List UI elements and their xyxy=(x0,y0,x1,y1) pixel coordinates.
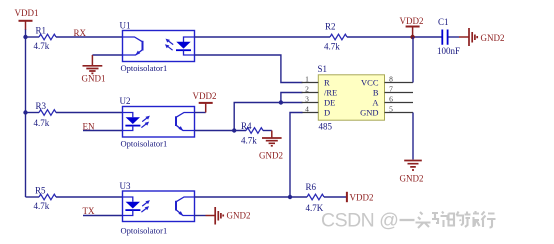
light arrows U3 (pointing up-right) xyxy=(141,200,150,212)
svg-text:DE: DE xyxy=(324,98,335,108)
power port VDD2 (bar, at R6) xyxy=(347,192,374,203)
wire R6 to VDD2 xyxy=(324,196,347,198)
ground GND2 (under pin 5) xyxy=(400,161,424,184)
node junction VDD2/R2/C1/VCC xyxy=(410,35,414,39)
svg-text:R3: R3 xyxy=(36,101,47,111)
svg-text:VDD2: VDD2 xyxy=(193,91,217,101)
svg-text:1: 1 xyxy=(305,75,309,84)
svg-text:U3: U3 xyxy=(120,181,131,191)
wire DE/RE riser from R4 node xyxy=(234,103,302,131)
node junction DE-riser/R4 xyxy=(232,128,236,132)
wire EN to U2 xyxy=(83,130,123,132)
svg-text:2: 2 xyxy=(305,85,309,94)
svg-text:4.7k: 4.7k xyxy=(34,201,50,211)
wire pin 8 to VDD2 junction xyxy=(412,37,414,83)
light arrows U1 (pointing up-left) xyxy=(165,39,173,51)
LED inside U2 xyxy=(123,113,141,131)
pin 8 (VCC) xyxy=(361,75,413,88)
watermark hanzi 旅 xyxy=(465,211,480,227)
svg-text:4.7k: 4.7k xyxy=(324,41,340,51)
light arrows U2 (pointing up-right) xyxy=(141,116,150,128)
svg-text:/RE: /RE xyxy=(324,88,337,98)
pin 1 (R) xyxy=(302,75,331,88)
watermark hanzi 驴 xyxy=(432,212,448,228)
svg-text:4.7k: 4.7k xyxy=(34,41,50,51)
svg-text:VCC: VCC xyxy=(361,78,379,88)
svg-text:R: R xyxy=(324,78,330,88)
svg-text:R4: R4 xyxy=(241,121,252,131)
ground GND2 (under R4) xyxy=(259,131,283,161)
power port VDD1 xyxy=(15,8,39,30)
node junction rail/R3 xyxy=(23,110,27,114)
svg-text:6: 6 xyxy=(389,95,393,104)
pin 5 (GND) xyxy=(360,105,413,118)
wire R4 to GND2 xyxy=(263,130,272,132)
pin 4 (D) xyxy=(302,105,331,118)
svg-text:CSDN @: CSDN @ xyxy=(321,210,398,232)
wire U1 top-right to R2 xyxy=(195,36,331,38)
wire U3 top-right to R6 xyxy=(195,196,308,198)
svg-text:3: 3 xyxy=(305,95,309,104)
svg-text:A: A xyxy=(372,98,379,108)
wire U3 bottom-right to GND2 xyxy=(195,215,206,217)
resistor R6 xyxy=(306,182,325,213)
wire rail to R1 xyxy=(26,36,40,38)
wire TX to U3 xyxy=(83,215,123,217)
wire U1 lower-left pin to GND1 xyxy=(92,54,122,56)
svg-text:GND2: GND2 xyxy=(400,174,424,184)
svg-text:GND: GND xyxy=(360,108,378,118)
wire left rail xyxy=(25,37,27,197)
ground GND2 (right of U3, rotated) xyxy=(206,207,251,225)
capacitor C1 xyxy=(437,17,460,56)
svg-text:VDD2: VDD2 xyxy=(400,16,424,26)
power port VDD2 (top) xyxy=(400,16,424,37)
svg-text:B: B xyxy=(373,88,379,98)
wire pin 4 (D) down to U3 row xyxy=(290,113,303,198)
svg-text:TX: TX xyxy=(83,206,95,216)
svg-text:VDD2: VDD2 xyxy=(350,192,374,202)
op-amp? no: optoisolator U1 xyxy=(120,21,195,74)
node junction /RE-DE xyxy=(279,100,283,104)
svg-text:GND1: GND1 xyxy=(82,74,106,84)
svg-text:U2: U2 xyxy=(120,96,131,106)
resistor R4 xyxy=(241,121,263,146)
wire R5 to U3 pin xyxy=(56,196,123,198)
watermark hanzi 的 xyxy=(449,212,464,226)
svg-text:D: D xyxy=(324,108,330,118)
svg-text:Optoisolator1: Optoisolator1 xyxy=(121,225,168,235)
wire R1 to U1 pin xyxy=(56,36,123,38)
transistor inside U1 (phototransistor, faces left) xyxy=(123,37,143,56)
svg-text:5: 5 xyxy=(389,105,393,114)
svg-text:EN: EN xyxy=(83,121,95,131)
pin 2 (/RE) xyxy=(302,85,338,98)
power port VDD2 (near U2) xyxy=(193,91,217,112)
transistor inside U3 (faces right) xyxy=(176,197,195,216)
svg-text:R2: R2 xyxy=(325,22,336,32)
wire U2 bottom-right to R4 xyxy=(195,130,247,132)
transistor inside U2 (faces right) xyxy=(176,113,195,132)
svg-text:VDD1: VDD1 xyxy=(15,8,39,18)
watermark hanzi 行 xyxy=(482,212,496,228)
resistor R2 xyxy=(324,22,347,52)
wire R2 to VDD2 junction xyxy=(347,36,442,38)
svg-text:4: 4 xyxy=(305,105,309,114)
optoisolator U3 xyxy=(120,181,195,235)
svg-text:R1: R1 xyxy=(36,26,47,36)
pin 3 (DE) xyxy=(302,95,336,108)
watermark hanzi 一 xyxy=(400,219,415,221)
svg-text:U1: U1 xyxy=(120,21,131,31)
ground GND1 xyxy=(82,55,106,84)
svg-text:C1: C1 xyxy=(438,17,449,27)
wire C1 to GND2 xyxy=(448,36,459,38)
LED inside U3 xyxy=(123,197,141,216)
svg-text:S1: S1 xyxy=(318,64,328,74)
LED inside U1 xyxy=(176,37,195,55)
watermark hanzi 头 xyxy=(416,212,431,228)
svg-text:R5: R5 xyxy=(35,186,46,196)
pin 7 (B) xyxy=(373,85,413,98)
wire U1 bottom-right to S1 pin 1 xyxy=(195,55,303,83)
resistor R1 xyxy=(34,26,57,52)
pin 6 (A) xyxy=(372,95,413,108)
node junction rail/R1 xyxy=(23,35,27,39)
wire VDD1 stem to rail xyxy=(25,30,27,38)
svg-text:GND2: GND2 xyxy=(481,33,505,43)
svg-text:8: 8 xyxy=(389,75,393,84)
resistor R5 xyxy=(34,186,57,212)
wire rail to R3 xyxy=(26,112,40,114)
wire U2 top-right to VDD2 xyxy=(195,112,206,114)
wire junction up to pin 2 xyxy=(281,93,303,103)
svg-text:485: 485 xyxy=(319,122,333,132)
svg-text:GND2: GND2 xyxy=(259,151,283,161)
wire R3 to U2 pin xyxy=(56,112,123,114)
node junction D-riser/R6 row xyxy=(288,195,292,199)
svg-text:R6: R6 xyxy=(306,182,317,192)
IC S1 (485 transceiver) xyxy=(318,64,385,132)
svg-text:4.7k: 4.7k xyxy=(241,136,257,146)
svg-text:Optoisolator1: Optoisolator1 xyxy=(121,63,168,73)
ground GND2 (right of C1, rotated) xyxy=(469,28,505,46)
svg-text:GND2: GND2 xyxy=(227,210,251,220)
svg-text:4.7k: 4.7k xyxy=(34,118,50,128)
wire rail to R5 xyxy=(26,196,40,198)
svg-text:100nF: 100nF xyxy=(437,46,460,56)
resistor R3 xyxy=(34,101,57,128)
svg-text:RX: RX xyxy=(74,28,87,38)
wire pin 5 to GND2 xyxy=(412,113,414,160)
optoisolator U2 xyxy=(120,96,195,149)
svg-text:7: 7 xyxy=(389,85,393,94)
svg-text:Optoisolator1: Optoisolator1 xyxy=(121,139,168,149)
